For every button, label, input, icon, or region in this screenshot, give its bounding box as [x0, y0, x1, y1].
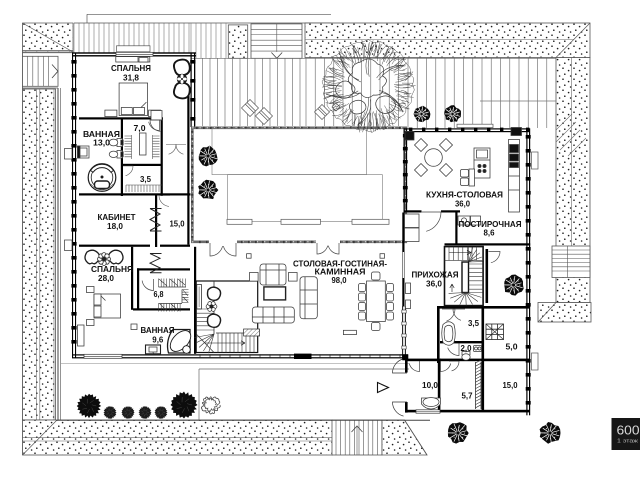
bathroom east wall	[121, 119, 123, 196]
site outline west edge	[22, 23, 24, 455]
dark trees bottom	[448, 422, 469, 443]
utility block 10.0 room walls	[405, 359, 441, 362]
bathroom1 wall cabinet	[78, 146, 90, 158]
cabinet north wall	[79, 193, 191, 195]
hall west window wall lower	[402, 306, 404, 359]
kitchen door arc	[421, 212, 441, 231]
dark tree pair west of living block	[199, 146, 218, 167]
bathroom2 north wall	[133, 308, 190, 310]
svg-text:36,0: 36,0	[455, 200, 471, 209]
scribble bushes row	[103, 406, 116, 419]
north deck boards right of bedroom	[191, 23, 226, 58]
bedroom2 dresser	[78, 325, 85, 346]
living glass block outline	[192, 128, 405, 242]
kitchen tall cabinets	[509, 140, 520, 213]
west wall window sills	[65, 149, 73, 160]
title box 600 / 1 etazh	[612, 418, 640, 450]
living misc small tables	[244, 254, 385, 336]
east band diagonal hatch top	[556, 114, 586, 156]
east deck boards	[408, 58, 547, 128]
corridor cabinet and door	[151, 111, 162, 121]
svg-text:18,0: 18,0	[107, 222, 124, 231]
upper retaining wall line	[87, 13, 331, 15]
utility oval fixture	[442, 322, 456, 346]
room 3.5/2.0 divider	[440, 341, 484, 343]
bathroom2 corner bath	[166, 327, 194, 355]
living south double door west	[210, 243, 223, 256]
utility block west wall upper	[437, 306, 440, 363]
corridor 5.7 hatched partition	[476, 360, 482, 409]
NE corner miter	[556, 23, 590, 58]
living room sofa set	[250, 264, 318, 323]
svg-text:28,0: 28,0	[98, 274, 115, 283]
stair block west wall	[194, 247, 196, 354]
south terrace edge	[58, 419, 430, 421]
large scribble tree	[322, 40, 414, 133]
svg-text:9,6: 9,6	[152, 336, 164, 345]
north dotted panel A	[228, 25, 247, 58]
central deck boards	[195, 58, 300, 126]
black blob trees bottom-left	[77, 394, 101, 418]
svg-text:5,7: 5,7	[462, 392, 474, 401]
svg-text:ПРИХОЖАЯ: ПРИХОЖАЯ	[412, 271, 459, 280]
bedroom east wall (to deck)	[191, 53, 192, 127]
svg-text:15,0: 15,0	[170, 220, 186, 229]
north dotted band to NE corner	[305, 23, 590, 58]
door 10.0 room north double	[409, 361, 419, 372]
dining table with chairs	[359, 272, 394, 331]
north window bedroom	[116, 52, 153, 56]
laundry south wall	[445, 243, 531, 245]
svg-text:СПАЛЬНЯ: СПАЛЬНЯ	[111, 64, 151, 73]
bedroom2 armchairs and flower table	[85, 250, 123, 265]
cabinet bifold closet doors	[150, 209, 162, 273]
svg-text:98,0: 98,0	[332, 276, 348, 285]
svg-text:1 этаж: 1 этаж	[617, 439, 639, 445]
bathroom1 toilet and bidet	[109, 139, 123, 159]
window sill east of 15.0	[532, 353, 539, 370]
utility wc toilet	[462, 346, 482, 361]
kitchen island	[461, 148, 491, 186]
bedroom2 east wall	[131, 247, 133, 310]
living block south door gaps	[209, 239, 237, 245]
door east of stair	[489, 252, 501, 263]
kitchen round table with chairs	[415, 139, 453, 177]
svg-text:31,8: 31,8	[123, 74, 140, 83]
utility south wall	[405, 410, 529, 413]
west strip inner edge double line	[53, 89, 55, 420]
hall south-west wall piece	[402, 354, 408, 360]
living block inner rect upper	[212, 128, 367, 174]
corridor east wall	[187, 95, 189, 245]
south dotted band east part	[382, 420, 427, 455]
wardrobe/3.5 divider	[123, 164, 163, 166]
west exterior wall with pilasters	[72, 53, 73, 358]
svg-text:3,5: 3,5	[468, 319, 480, 328]
glass block mullion blocks	[196, 127, 198, 129]
bedroom window exterior sill	[117, 46, 151, 52]
west exterior stair NW	[23, 56, 59, 86]
NW panel bottom double line	[23, 50, 74, 52]
bathroom north wall	[79, 117, 163, 119]
svg-text:СПАЛЬНЯ: СПАЛЬНЯ	[91, 265, 133, 274]
wardrobe 6.8 hanger combs	[159, 279, 189, 312]
kitchen west wall with pilasters	[404, 128, 405, 212]
wardrobe 7.0 hanger combs	[125, 135, 163, 192]
entrance direction marker	[378, 383, 389, 393]
south terrace inner step lines	[199, 368, 409, 370]
north exterior stair	[251, 24, 302, 58]
east exterior wall	[526, 128, 527, 415]
svg-text:КАБИНЕТ: КАБИНЕТ	[98, 213, 136, 222]
fireplace block in south wall	[294, 354, 312, 359]
gray scribble tree bottom	[201, 397, 220, 414]
svg-text:7,0: 7,0	[134, 124, 147, 133]
bedroom1 door from corridor	[166, 145, 176, 155]
west stair block	[194, 281, 257, 353]
west terrace edge double line	[57, 88, 59, 421]
svg-text:36,0: 36,0	[426, 280, 443, 289]
south exterior stair	[332, 420, 382, 455]
south wall west wing	[72, 354, 196, 355]
west dotted strip	[23, 89, 56, 420]
svg-text:8,6: 8,6	[484, 229, 496, 238]
svg-text:600: 600	[617, 424, 640, 438]
laundry west wall	[455, 213, 457, 246]
bathroom2 vanity	[131, 324, 161, 354]
south dotted band	[23, 420, 333, 455]
room 3.5 west door	[123, 166, 133, 176]
svg-text:10,0: 10,0	[422, 381, 439, 390]
entrance door gap in west wall of 10.0	[405, 373, 409, 403]
bedroom2 bed	[87, 287, 121, 326]
utility block north wall	[437, 306, 530, 309]
kitchen south wall	[404, 210, 422, 212]
kitchen north counter pieces	[405, 128, 522, 141]
lounge chairs on deck	[242, 100, 259, 117]
kitchen north wall	[404, 128, 530, 129]
bedroom1 armchairs and table	[174, 60, 190, 99]
cabinet/bedroom2 divider	[79, 245, 150, 247]
bedroom north wall	[72, 52, 196, 53]
main stair hall	[445, 247, 484, 306]
svg-text:6,8: 6,8	[154, 290, 164, 299]
svg-text:3,5: 3,5	[140, 175, 152, 184]
dark tree pair north of kitchen	[414, 106, 431, 122]
wardrobe 6.8 walls	[137, 268, 190, 270]
wardrobe east wall	[161, 119, 163, 196]
kitchen north window sill	[457, 124, 493, 127]
bedroom1 bed	[105, 83, 161, 117]
NW dotted triangle panel	[23, 23, 74, 52]
svg-text:2,0: 2,0	[461, 344, 473, 353]
hall stair side wall	[486, 249, 489, 303]
east exterior stair	[552, 246, 590, 278]
dark tree southeast hall	[504, 275, 524, 296]
svg-text:ВАННАЯ: ВАННАЯ	[141, 326, 175, 335]
hall wardrobe rects	[405, 214, 420, 309]
north deck boards over bedroom	[74, 23, 191, 53]
east dotted band	[556, 58, 590, 303]
hall west wall	[402, 213, 404, 307]
svg-text:КУХНЯ-СТОЛОВАЯ: КУХНЯ-СТОЛОВАЯ	[426, 191, 503, 200]
bathroom1 round jacuzzi	[88, 164, 116, 192]
bedroom1 dresser under window	[116, 57, 150, 62]
living block window sills	[227, 219, 252, 224]
room 5.0 ladder icon	[486, 324, 504, 340]
svg-text:5,0: 5,0	[506, 343, 519, 352]
west stair armchairs and flower table	[208, 287, 221, 327]
laundry fixtures	[458, 216, 481, 225]
utility center wall	[482, 308, 485, 412]
south wall living room windows	[196, 354, 408, 355]
living block inner rect lower	[228, 175, 383, 222]
cabinet east wall	[155, 196, 157, 248]
room5 lower divider wall	[440, 359, 529, 362]
wardrobe door	[149, 120, 160, 131]
door arcs misc utility	[448, 344, 459, 356]
svg-text:15,0: 15,0	[503, 381, 519, 390]
room 10.0 oval table	[422, 398, 441, 410]
SE dotted end panels	[538, 303, 591, 323]
svg-text:13,0: 13,0	[93, 139, 111, 148]
SW corner miter	[23, 421, 57, 455]
cabinet door	[159, 196, 170, 207]
window in 10.0 south wall	[416, 410, 440, 413]
living south double door east	[317, 243, 328, 254]
entrance double door leaves	[392, 359, 407, 373]
